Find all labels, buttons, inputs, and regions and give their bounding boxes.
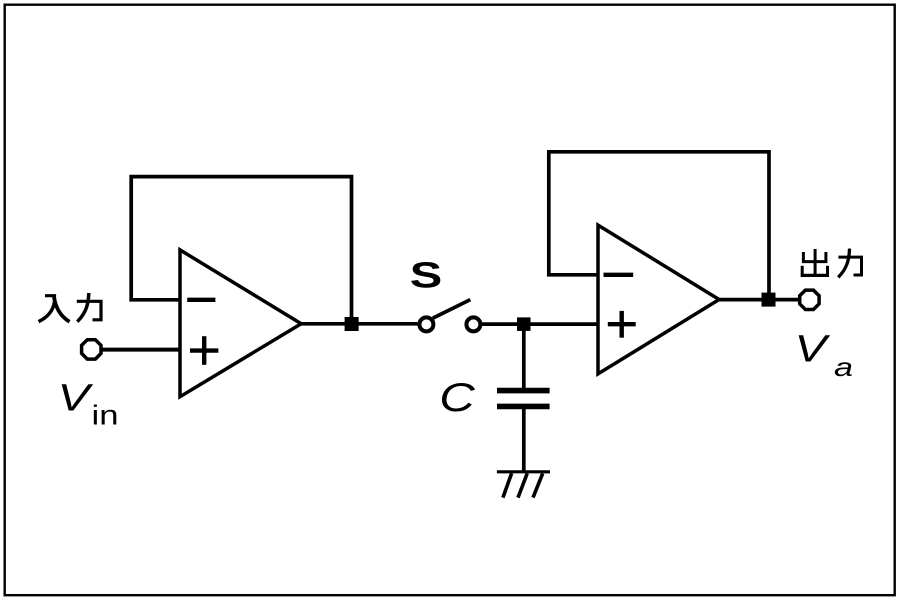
svg-text:S: S — [410, 255, 443, 296]
svg-text:a: a — [834, 352, 853, 382]
svg-text:V: V — [795, 329, 832, 371]
svg-text:V: V — [58, 378, 95, 420]
svg-text:in: in — [92, 400, 119, 431]
svg-text:C: C — [439, 376, 476, 420]
